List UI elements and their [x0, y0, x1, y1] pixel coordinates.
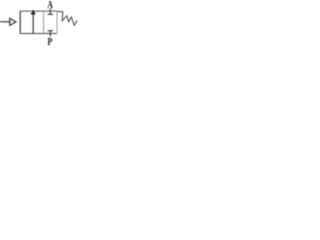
blocked port bottom bar — [48, 30, 53, 32]
svg-text:P: P — [47, 37, 52, 47]
valve body right edge — [56, 11, 58, 34]
valve position divider — [43, 11, 45, 34]
blocked port top stub — [49, 8, 51, 14]
return spring — [57, 11, 77, 25]
valve body left edge — [19, 11, 21, 34]
valve body bottom edge — [20, 33, 57, 35]
valve body top edge — [20, 10, 57, 12]
flow path arrow shaft — [32, 14, 34, 34]
blocked port top bar — [48, 13, 53, 15]
blocked port bottom stub — [49, 31, 51, 37]
flow path arrowhead — [31, 10, 36, 15]
pilot actuator triangle — [10, 18, 16, 25]
wire pilot line — [0, 21, 10, 23]
svg-text:A: A — [47, 0, 53, 11]
